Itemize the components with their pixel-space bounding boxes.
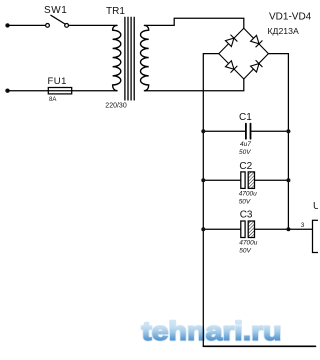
transformer core lines (124, 17, 126, 100)
svg-text:3: 3 (301, 222, 305, 229)
svg-text:КД213А: КД213А (268, 26, 299, 36)
diode VD1 top-left (225, 35, 237, 47)
wire C3 junction to regulator U1 pin 3 (288, 228, 312, 230)
wire bottom input to fuse (8, 90, 49, 92)
wire switch to transformer primary (69, 24, 117, 26)
capacitor C3 electrolytic (201, 209, 288, 254)
diode VD3 bottom-left (225, 61, 237, 73)
node input terminal bottom (5, 89, 9, 93)
node junction right bus C3 (286, 227, 290, 231)
svg-text:4700u: 4700u (239, 240, 257, 247)
wire C3 left lead (203, 228, 241, 230)
transformer primary winding (113, 25, 121, 90)
svg-text:4700u: 4700u (239, 191, 257, 198)
capacitor C3 plates (241, 221, 245, 238)
wire secondary top to bridge top vertex (145, 18, 244, 28)
wire bridge left vertex to negative bus (203, 54, 219, 347)
svg-text:8A: 8A (49, 97, 56, 103)
capacitor C1 (201, 112, 290, 156)
svg-text:TR1: TR1 (106, 6, 125, 17)
switch SW1 (44, 5, 69, 28)
node input terminal top (5, 23, 9, 27)
diode VD2 top-right (250, 35, 262, 47)
node junction left bus C2 (201, 178, 205, 182)
svg-text:220/30: 220/30 (105, 103, 127, 110)
svg-text:C1: C1 (239, 112, 252, 123)
wire C2 right lead (255, 179, 289, 181)
fuse FU1 8A (48, 76, 72, 103)
svg-text:C3: C3 (240, 209, 253, 220)
wire C2 left lead (203, 179, 241, 181)
wire C3 right lead (255, 228, 289, 230)
capacitor C1 plates (245, 124, 247, 139)
switch contact circle left (46, 24, 50, 28)
bridge rectifier diamond (219, 28, 269, 79)
wire fuse to transformer primary bottom (72, 90, 117, 92)
wire C1 left lead (203, 130, 245, 132)
node junction right bus C2 (286, 178, 290, 182)
fuse body rect (48, 88, 71, 94)
diode VD4 bottom-right (250, 60, 262, 72)
svg-text:FU1: FU1 (48, 76, 67, 87)
wire bottom return (203, 345, 315, 347)
svg-text:50V: 50V (239, 198, 251, 205)
node junction right bus C1 (286, 129, 290, 133)
capacitor C2 plates (241, 172, 245, 189)
wire C1 right lead (251, 130, 288, 132)
wire top input to switch (8, 24, 46, 26)
transformer TR1 220/30 (105, 6, 148, 110)
svg-text:50V: 50V (239, 247, 251, 254)
node junction left bus C1 (201, 129, 205, 133)
watermark tehnari.ru (142, 316, 282, 346)
switch contact circle right (65, 24, 69, 28)
svg-text:4u7: 4u7 (240, 141, 251, 148)
svg-text:50V: 50V (239, 149, 251, 156)
svg-text:U1: U1 (313, 201, 318, 212)
switch blade (51, 15, 65, 24)
transformer secondary winding (140, 25, 148, 90)
svg-text:VD1-VD4: VD1-VD4 (269, 11, 312, 22)
svg-text:tehnari.ru: tehnari.ru (142, 316, 282, 346)
wire bridge right vertex to positive bus (268, 54, 288, 230)
svg-text:SW1: SW1 (44, 5, 67, 16)
node junction left bus C3 (201, 227, 205, 231)
op-amp U1 (regulator box, clipped at edge) (313, 201, 320, 253)
wire secondary bottom to bridge bottom vertex (145, 79, 244, 91)
svg-text:C2: C2 (239, 161, 252, 172)
wire through fuse (48, 90, 71, 92)
capacitor C2 electrolytic (201, 161, 290, 206)
